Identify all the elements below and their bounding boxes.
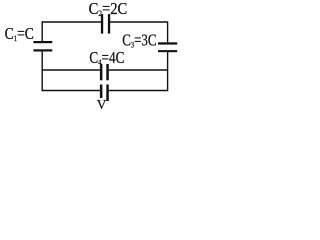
svg-text:C1=C: C1=C xyxy=(5,25,34,44)
svg-text:V: V xyxy=(97,96,107,111)
svg-text:C3=3C: C3=3C xyxy=(122,32,156,50)
svg-text:C2=2C: C2=2C xyxy=(89,0,128,18)
svg-text:C4=4C: C4=4C xyxy=(89,48,124,67)
